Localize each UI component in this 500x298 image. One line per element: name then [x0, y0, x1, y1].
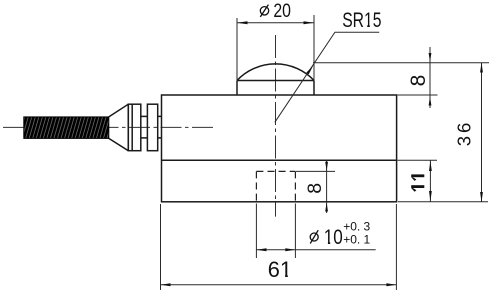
svg-text:20: 20	[273, 0, 291, 22]
svg-text:8: 8	[407, 75, 430, 87]
svg-text:+0. 1: +0. 1	[343, 233, 370, 247]
svg-text:SR15: SR15	[342, 8, 381, 32]
svg-text:+0. 3: +0. 3	[343, 219, 370, 233]
svg-text:8: 8	[304, 183, 326, 194]
svg-text:10: 10	[324, 226, 343, 249]
svg-text:36: 36	[454, 120, 475, 147]
